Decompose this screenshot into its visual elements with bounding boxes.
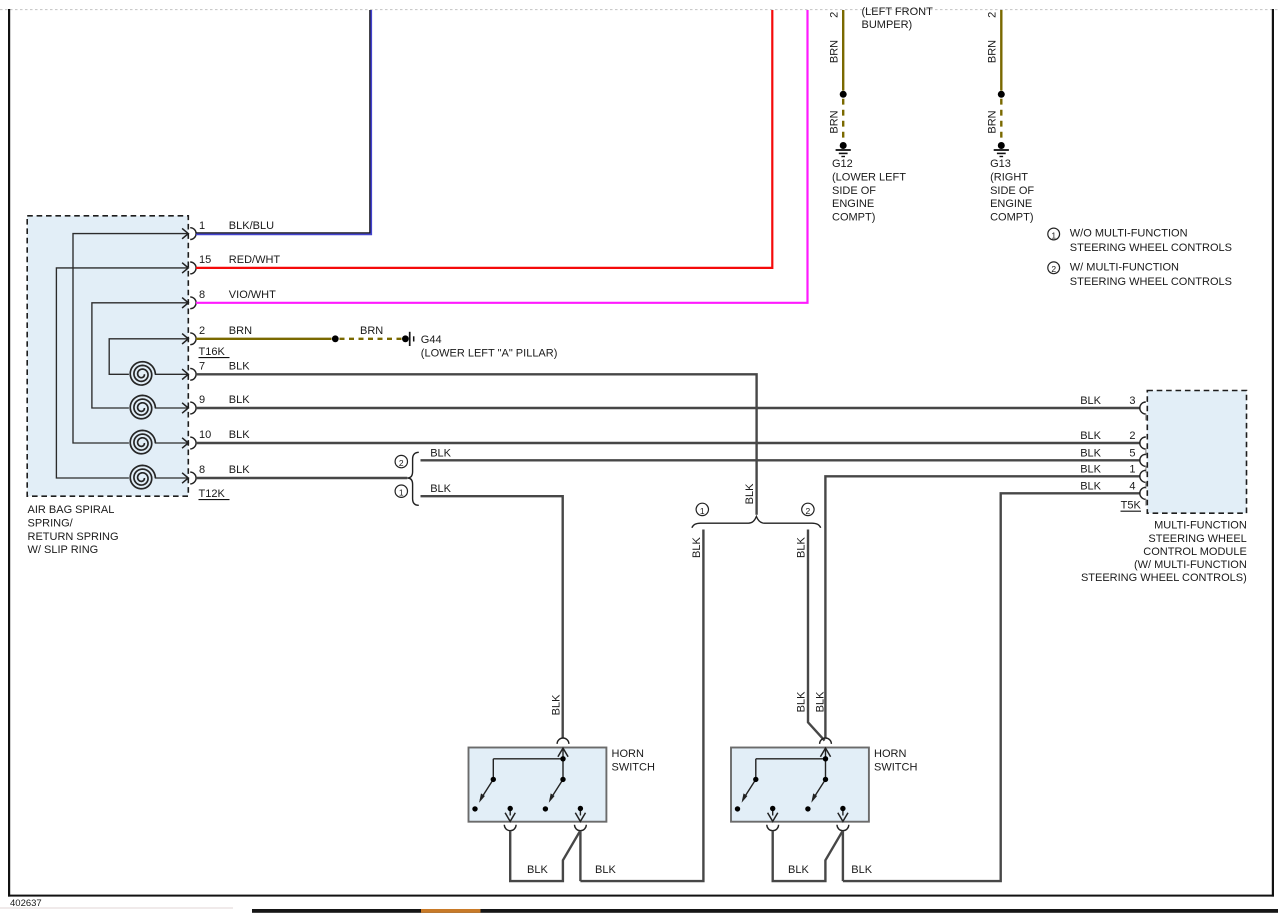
svg-text:BUMPER): BUMPER) [862, 19, 913, 31]
svg-text:SWITCH: SWITCH [612, 761, 655, 773]
module wire label BLK and pin 3 [1080, 395, 1135, 407]
svg-text:T16K: T16K [199, 346, 226, 358]
ground node dot G12 [840, 142, 847, 149]
wire BLK pin9 to module pin3 [196, 407, 1141, 409]
svg-text:9: 9 [199, 394, 205, 406]
svg-text:2: 2 [986, 12, 998, 18]
svg-text:2: 2 [399, 458, 404, 468]
wire BRN dashed to G13 [1000, 99, 1002, 141]
brace split pin7 options [692, 516, 821, 527]
horn switch SW1 bottom terminal cups [504, 825, 586, 831]
svg-text:HORN: HORN [874, 748, 906, 760]
svg-text:G13: G13 [990, 158, 1011, 170]
svg-text:1: 1 [700, 506, 705, 516]
option circle 2 at pin8 brace [395, 455, 407, 468]
wire internal route pin15 to coil4 [56, 268, 188, 478]
pin terminal arrow+cup pin 9 [182, 402, 196, 414]
module pin terminal cup pin 3 [1140, 402, 1146, 420]
svg-text:2: 2 [828, 12, 840, 18]
horn switch SW2 bottom terminal cups [767, 825, 849, 831]
svg-text:1: 1 [1129, 463, 1135, 475]
svg-text:BLK: BLK [796, 691, 808, 712]
horn switch SW2 caption [874, 748, 917, 773]
wire label BLK SW2 left [788, 864, 809, 876]
wire label BRN lower G13 [986, 110, 998, 133]
wire BLK option2 drop to horn2 top [808, 530, 825, 741]
pin terminal arrow+cup pin 15 [182, 262, 196, 274]
svg-text:BLK: BLK [430, 483, 451, 495]
coil L3 slip-ring spiral [130, 430, 188, 453]
wire BRN drop to G12 solid [842, 10, 844, 91]
wire label BLK option2 branch [430, 448, 451, 460]
wire BLK option1 branch to horn switch 1 [421, 496, 563, 738]
pin terminal arrow+cup pin 7 [182, 368, 196, 380]
svg-text:T12K: T12K [199, 488, 226, 500]
svg-text:BLK: BLK [595, 864, 616, 876]
wire BLK/BLU pin1 [196, 10, 371, 234]
junction node on G13 wire [998, 91, 1005, 98]
wire VIO/WHT pin8 [196, 10, 808, 303]
module caption [1081, 520, 1247, 584]
svg-text:SWITCH: SWITCH [874, 761, 917, 773]
svg-text:W/ SLIP RING: W/ SLIP RING [28, 544, 99, 556]
wire BRN drop to G13 solid [1000, 10, 1002, 91]
wire BLK pin10 to module pin2 [196, 442, 1141, 444]
module wire label BLK and pin 5 [1080, 447, 1135, 459]
wire BLK pin8 to brace [196, 477, 407, 479]
wire BLK pin7 to brace [196, 374, 757, 515]
horn switch SW1 internal contacts [472, 748, 585, 821]
wire label BLK SW1 right [595, 864, 616, 876]
svg-text:BRN: BRN [986, 110, 998, 133]
pin terminal arrow+cup pin 1 [182, 228, 196, 240]
svg-text:2: 2 [1129, 430, 1135, 442]
wire RED/WHT pin15 [196, 10, 772, 268]
option circle 1 at pin7 brace [696, 503, 708, 516]
svg-text:BLK: BLK [1080, 463, 1101, 475]
pin number 8 and wire label BLK [199, 464, 250, 476]
svg-text:(LEFT FRONT: (LEFT FRONT [862, 6, 934, 18]
connector id T16K [199, 346, 230, 358]
svg-text:1: 1 [1051, 230, 1056, 240]
pin number 9 and wire label BLK [199, 394, 250, 406]
svg-text:BLK: BLK [527, 864, 548, 876]
ground G12 symbol [836, 150, 851, 157]
pin terminal arrow+cup pin 8 [182, 472, 196, 484]
svg-text:G12: G12 [832, 158, 853, 170]
diagram number 402637 [10, 898, 42, 909]
svg-text:10: 10 [199, 429, 211, 441]
wire label BLK horn1 drop [550, 694, 562, 715]
brace split pin8 options [407, 452, 418, 505]
svg-text:BLK: BLK [851, 864, 872, 876]
wire label BLK option1 drop [691, 537, 703, 558]
pin 2 label at top of G13 wire [986, 12, 998, 18]
module wire label BLK and pin 2 [1080, 430, 1135, 442]
wire internal route pin1 to coil3 [73, 234, 188, 443]
air bag spiral spring caption [28, 504, 119, 556]
wire internal route pin2 to coil1 [109, 339, 188, 375]
svg-text:ENGINE: ENGINE [832, 198, 874, 210]
module pin terminal cup pin 2 [1140, 437, 1146, 455]
svg-text:ENGINE: ENGINE [990, 198, 1032, 210]
svg-text:COMPT): COMPT) [990, 212, 1033, 224]
svg-text:VIO/WHT: VIO/WHT [229, 289, 276, 301]
svg-text:8: 8 [199, 289, 205, 301]
svg-text:STEERING WHEEL CONTROLS: STEERING WHEEL CONTROLS [1070, 276, 1232, 288]
wire BLK module pin4 to horn2 bottom [843, 493, 1141, 881]
svg-text:STEERING WHEEL CONTROLS): STEERING WHEEL CONTROLS) [1081, 572, 1247, 584]
wire BRN pin2 solid [196, 338, 332, 340]
junction node on G12 wire [840, 91, 847, 98]
svg-text:HORN: HORN [612, 748, 644, 760]
wire BLK SW1 right pin drop [579, 831, 581, 881]
svg-text:BLK: BLK [430, 448, 451, 460]
svg-text:RETURN SPRING: RETURN SPRING [28, 531, 119, 543]
wire BLK SW1 left pin loop [510, 831, 580, 881]
svg-text:STEERING WHEEL: STEERING WHEEL [1148, 533, 1246, 545]
svg-text:BRN: BRN [986, 40, 998, 63]
svg-text:(LOWER LEFT: (LOWER LEFT [832, 171, 906, 183]
svg-text:4: 4 [1129, 480, 1135, 492]
pin number 2 and wire label BRN [199, 325, 252, 337]
module wire label BLK and pin 4 [1080, 480, 1135, 492]
pin number 10 and wire label BLK [199, 429, 250, 441]
pin terminal arrow+cup pin 10 [182, 437, 196, 449]
splice node on BRN [332, 335, 339, 342]
cut-off component caption left front bumper [862, 6, 934, 31]
coil L4 slip-ring spiral [130, 465, 188, 488]
svg-text:2: 2 [199, 325, 205, 337]
wire BLK SW2 right pin drop [842, 831, 844, 881]
svg-text:BLK/BLU: BLK/BLU [229, 220, 274, 232]
horn switch SW1 box [469, 748, 607, 822]
option circle 2 at pin7 brace [802, 503, 814, 516]
svg-text:W/O MULTI-FUNCTION: W/O MULTI-FUNCTION [1070, 228, 1188, 240]
svg-text:AIR BAG SPIRAL: AIR BAG SPIRAL [28, 504, 115, 516]
svg-text:BLK: BLK [229, 394, 250, 406]
svg-text:MULTI-FUNCTION: MULTI-FUNCTION [1154, 520, 1247, 532]
svg-text:1: 1 [199, 220, 205, 232]
svg-text:7: 7 [199, 361, 205, 373]
svg-text:BLK: BLK [1080, 447, 1101, 459]
splice node at G44 [402, 335, 409, 342]
horn switch SW2 box [731, 748, 869, 822]
wire label BRN upper G13 [986, 40, 998, 63]
connector id T12K [199, 488, 230, 500]
svg-text:(RIGHT: (RIGHT [990, 171, 1028, 183]
bottom strip next page [0, 907, 1278, 912]
svg-text:BLK: BLK [1080, 430, 1101, 442]
coil L2 slip-ring spiral [130, 395, 188, 418]
svg-text:2: 2 [1051, 264, 1056, 274]
svg-text:BLK: BLK [550, 694, 562, 715]
svg-text:(LOWER LEFT "A" PILLAR): (LOWER LEFT "A" PILLAR) [421, 347, 558, 359]
ground G44 labels [421, 334, 558, 360]
ground G44 symbol [410, 332, 414, 346]
option circle 1 at pin8 brace [395, 485, 407, 498]
wire label BLK module pin1 lower [814, 691, 826, 712]
svg-text:SIDE OF: SIDE OF [990, 185, 1034, 197]
svg-text:15: 15 [199, 254, 211, 266]
svg-text:BLK: BLK [229, 361, 250, 373]
svg-text:RED/WHT: RED/WHT [229, 254, 281, 266]
wire label BLK option1 branch [430, 483, 451, 495]
svg-text:SPRING/: SPRING/ [28, 517, 74, 529]
wire label BLK SW1 left [527, 864, 548, 876]
svg-text:BLK: BLK [229, 464, 250, 476]
svg-text:2: 2 [806, 506, 811, 516]
wire label BRN upper G12 [828, 40, 840, 63]
svg-text:(W/ MULTI-FUNCTION: (W/ MULTI-FUNCTION [1134, 559, 1247, 571]
svg-text:1: 1 [399, 488, 404, 498]
wire BLK option1 drop to horn1 bottom [580, 530, 703, 882]
svg-text:CONTROL MODULE: CONTROL MODULE [1143, 546, 1247, 558]
coil L1 slip-ring spiral [130, 362, 188, 385]
connector T16K/T12K air bag spiral spring box [27, 216, 188, 496]
svg-text:BLK: BLK [229, 429, 250, 441]
wire label BRN at dashed segment [360, 325, 383, 337]
pin number 7 and wire label BLK [199, 361, 250, 373]
module wire label BLK and pin 1 [1080, 463, 1135, 475]
svg-text:BRN: BRN [828, 40, 840, 63]
pin number 1 and wire label BLK/BLU [199, 220, 274, 232]
svg-text:8: 8 [199, 464, 205, 476]
svg-text:BRN: BRN [360, 325, 383, 337]
ground G13 symbol [994, 150, 1009, 157]
legend option 2 text [1070, 262, 1232, 289]
svg-text:BLK: BLK [691, 537, 703, 558]
ground G13 caption [990, 158, 1034, 224]
svg-text:BRN: BRN [828, 110, 840, 133]
svg-text:SIDE OF: SIDE OF [832, 185, 876, 197]
pin terminal arrow+cup pin 8 [182, 297, 196, 309]
wire label BLK option2 drop [796, 537, 808, 558]
ground G12 caption [832, 158, 906, 224]
wire BLK option2 branch to module pin5 [421, 459, 1141, 461]
module pin terminal cup pin 4 [1140, 487, 1146, 505]
svg-text:T5K: T5K [1121, 500, 1142, 512]
pin terminal arrow+cup pin 2 [182, 333, 196, 345]
svg-text:BLK: BLK [788, 864, 809, 876]
svg-text:402637: 402637 [10, 898, 42, 909]
legend option 2 circle [1048, 262, 1060, 274]
pin 2 label at top of G12 wire [828, 12, 840, 18]
wire BRN dashed to G12 [842, 99, 844, 141]
svg-text:W/ MULTI-FUNCTION: W/ MULTI-FUNCTION [1070, 262, 1179, 274]
legend option 1 text [1070, 228, 1232, 255]
horn switch SW1 top terminal cup [557, 738, 569, 744]
pin number 15 and wire label RED/WHT [199, 254, 280, 266]
svg-text:COMPT): COMPT) [832, 212, 875, 224]
svg-text:BRN: BRN [229, 325, 252, 337]
horn switch SW2 internal contacts [735, 748, 848, 821]
horn switch SW1 caption [612, 748, 655, 773]
module pin terminal cup pin 1 [1140, 470, 1146, 488]
wire label BRN lower G12 [828, 110, 840, 133]
svg-text:BLK: BLK [1080, 395, 1101, 407]
svg-text:G44: G44 [421, 334, 442, 346]
legend option 1 circle [1048, 228, 1060, 240]
svg-text:3: 3 [1129, 395, 1135, 407]
svg-text:STEERING WHEEL CONTROLS: STEERING WHEEL CONTROLS [1070, 242, 1232, 254]
wire label BLK pin7 drop [744, 483, 756, 504]
connector T5K multi-function module box [1147, 391, 1246, 514]
horn switch SW2 top terminal cup [820, 738, 832, 744]
svg-text:5: 5 [1129, 447, 1135, 459]
svg-text:BLK: BLK [796, 537, 808, 558]
svg-text:BLK: BLK [1080, 480, 1101, 492]
wire label BLK option2 lower [796, 691, 808, 712]
ground node dot G13 [998, 142, 1005, 149]
wire BLK module pin1 to horn2 top [825, 476, 1140, 738]
wire BLK SW2 left pin loop [773, 831, 843, 881]
wire BRN dashed to G44 [340, 338, 402, 340]
module pin terminal cup pin 5 [1140, 454, 1146, 472]
pin number 8 and wire label VIO/WHT [199, 289, 276, 301]
svg-text:BLK: BLK [744, 483, 756, 504]
wire internal route pin8 to coil2 [92, 303, 188, 408]
wire label BLK SW2 right [851, 864, 872, 876]
connector id T5K [1121, 500, 1142, 512]
